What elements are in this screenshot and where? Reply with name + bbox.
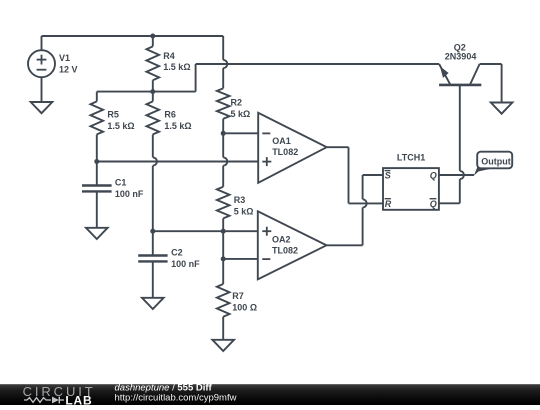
CircuitLab logo resistor-diode glyph	[24, 397, 64, 404]
ground at Q2 collector	[491, 103, 513, 114]
label R3 value	[234, 207, 254, 217]
capacitor C1	[82, 186, 112, 192]
op-amp OA2 body	[258, 211, 327, 279]
wire R2/R3 column top segment with hop over emitter rail	[223, 36, 227, 88]
svg-text:R6: R6	[164, 110, 176, 120]
transistor Q2 emitter arrow	[440, 66, 449, 78]
junction node A at R4 bottom	[150, 89, 155, 94]
footer title dashneptune / 555 Diff	[115, 383, 213, 394]
wire OA2 - input from R7 top node	[223, 258, 258, 260]
label 12 V	[59, 65, 78, 75]
footer url	[115, 393, 237, 404]
svg-text:R4: R4	[163, 51, 175, 61]
wire R6 bottom to C2 node with hop over threshold line	[153, 134, 157, 230]
label C2	[171, 247, 183, 257]
wire OA1 output drop	[348, 147, 350, 203]
capacitor C2	[138, 256, 167, 262]
op-amp OA1 plus sign	[262, 157, 271, 166]
resistor R5 top lead	[96, 92, 98, 102]
label R2	[231, 97, 243, 107]
svg-text:R: R	[385, 199, 392, 209]
label R6	[164, 110, 176, 120]
resistor R7	[217, 284, 230, 317]
capacitor C2 bottom lead	[152, 261, 154, 297]
resistor R6	[147, 101, 160, 134]
resistor R4	[147, 46, 160, 80]
junction at R3 bottom (OA2 + tap)	[221, 229, 226, 234]
wire R7 bottom lead to ground	[222, 317, 224, 340]
wire Qbar riser to Q2 base with hop over Q wire	[460, 85, 464, 203]
output flag Output	[477, 152, 512, 169]
svg-text:R2: R2	[231, 97, 243, 107]
label C1 value	[115, 189, 144, 199]
svg-text:C1: C1	[115, 177, 127, 187]
output flag pointer	[474, 166, 494, 176]
wire OA2 output riser to latch S with hop	[363, 175, 367, 245]
svg-text:100 nF: 100 nF	[171, 259, 200, 269]
svg-text:OA1: OA1	[272, 136, 291, 146]
svg-text:R3: R3	[234, 195, 246, 205]
junction at R7 top (OA2 - tap)	[221, 256, 226, 261]
wire emitter rail to Q2	[196, 63, 440, 65]
svg-text:S: S	[385, 171, 391, 181]
svg-text:Q: Q	[430, 171, 437, 181]
wire between R3 node and R7 node	[222, 231, 224, 259]
wire latch Q output to Output flag	[439, 174, 474, 176]
resistor R2	[217, 88, 230, 118]
voltage source V1 body	[28, 50, 55, 77]
svg-text:OA2: OA2	[272, 234, 291, 244]
resistor R5 bottom lead	[96, 134, 98, 161]
wire node between R2 and R3 with hop over threshold line	[223, 133, 227, 187]
svg-text:5 kΩ: 5 kΩ	[231, 109, 251, 119]
label R6 value	[164, 121, 191, 131]
label R4 value	[163, 62, 190, 72]
capacitor C2 top lead	[152, 231, 154, 255]
resistor R5	[91, 101, 104, 134]
label R4	[163, 51, 175, 61]
label R7 value	[232, 303, 257, 313]
latch pin Qbar	[430, 199, 437, 209]
svg-text:100 nF: 100 nF	[115, 189, 144, 199]
label OA1 part TL082	[272, 147, 298, 157]
svg-text:Q: Q	[430, 199, 437, 209]
svg-text:http://circuitlab.com/cyp9mfw: http://circuitlab.com/cyp9mfw	[115, 393, 237, 404]
op-amp OA1 body	[258, 113, 327, 183]
svg-text:1.5 kΩ: 1.5 kΩ	[107, 121, 134, 131]
voltage source V1 stem top	[41, 36, 43, 50]
svg-text:V1: V1	[59, 53, 70, 63]
latch LTCH1 body	[383, 168, 439, 210]
capacitor C1 top lead	[96, 162, 98, 186]
junction at C2 top	[150, 229, 155, 234]
wire OA2 + input line (C2 node to OA2)	[153, 230, 258, 232]
capacitor C1 bottom lead	[96, 191, 98, 227]
resistor R6 top lead	[152, 92, 154, 102]
op-amp OA2 minus sign	[262, 258, 270, 260]
junction at R4 top on supply rail	[150, 34, 155, 39]
transistor Q2 collector	[470, 64, 480, 85]
voltage source V1 stem bottom	[41, 77, 43, 102]
label LTCH1	[397, 152, 425, 162]
junction at R5 bottom / C1 top	[94, 159, 99, 164]
wire node A horizontal (R4 bottom / R5 top)	[97, 91, 196, 93]
wire R2 bottom lead to node	[222, 119, 224, 134]
label V1	[59, 53, 70, 63]
wire top supply rail	[42, 35, 224, 37]
label R5	[107, 110, 119, 120]
latch pin Q	[430, 171, 437, 181]
svg-text:TL082: TL082	[272, 147, 298, 157]
svg-text:5 kΩ: 5 kΩ	[234, 207, 254, 217]
wire R7 top lead	[222, 259, 224, 284]
transistor Q2 base bar	[439, 84, 481, 87]
wire R3 bottom lead	[222, 218, 224, 231]
svg-text:12 V: 12 V	[59, 65, 78, 75]
op-amp OA1 minus sign	[262, 132, 270, 134]
label OA2 part TL082	[272, 246, 298, 256]
resistor R4 bottom lead	[152, 80, 154, 91]
wire node A riser to emitter rail	[195, 64, 197, 92]
label R7	[232, 291, 244, 301]
svg-text:C2: C2	[171, 247, 183, 257]
latch pin Sbar	[385, 171, 391, 181]
label OA1	[272, 136, 291, 146]
label R2 value	[231, 109, 251, 119]
svg-text:R7: R7	[232, 291, 244, 301]
svg-text:100 Ω: 100 Ω	[232, 303, 257, 313]
wire latch Qbar output	[439, 202, 460, 204]
label C2 value	[171, 259, 200, 269]
svg-text:2N3904: 2N3904	[445, 51, 477, 61]
wire OA1 output to latch R	[349, 202, 384, 204]
resistor R3	[217, 187, 230, 219]
label R5 value	[107, 121, 134, 131]
wire OA1 output	[327, 146, 349, 148]
label OA2	[272, 234, 291, 244]
ground under C2	[142, 298, 164, 309]
svg-text:LTCH1: LTCH1	[397, 152, 425, 162]
footer bar	[0, 384, 540, 405]
ground under R7	[212, 340, 234, 351]
CircuitLab logo LAB	[65, 393, 92, 407]
wire Q2 collector to ground	[480, 64, 502, 103]
wire OA1 inverting input from R2/R3 node	[223, 132, 258, 134]
ground under V1	[31, 102, 53, 113]
CircuitLab logo CIRCUIT	[23, 384, 96, 399]
label C1	[115, 177, 127, 187]
transistor Q2 emitter	[439, 64, 450, 85]
latch pin Rbar	[385, 199, 392, 209]
ground under C1	[86, 228, 108, 239]
svg-text:1.5 kΩ: 1.5 kΩ	[164, 121, 191, 131]
wire threshold line (R5 bottom to OA1 +)	[97, 161, 258, 163]
wire latch S input stub	[363, 174, 383, 176]
op-amp OA2 plus sign	[262, 227, 271, 236]
junction at R2 bottom (OA1 - tap)	[221, 131, 226, 136]
label R3	[234, 195, 246, 205]
wire OA2 output	[327, 244, 363, 246]
label Q2	[454, 42, 466, 52]
svg-text:R5: R5	[107, 110, 119, 120]
svg-text:1.5 kΩ: 1.5 kΩ	[163, 62, 190, 72]
label Q2 part 2N3904	[445, 51, 477, 61]
svg-text:LAB: LAB	[65, 393, 92, 405]
resistor R4 top lead	[152, 36, 154, 46]
svg-text:Output: Output	[481, 156, 511, 166]
svg-text:TL082: TL082	[272, 246, 298, 256]
